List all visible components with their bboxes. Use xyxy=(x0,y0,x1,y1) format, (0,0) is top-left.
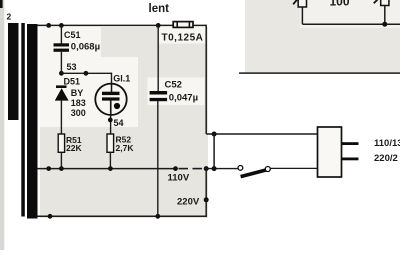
wire: to switch xyxy=(204,168,238,170)
junction dot at C52 branch xyxy=(156,23,161,28)
wire: switch to plug lower pin xyxy=(270,167,318,169)
inset: wire square2 down xyxy=(384,6,386,25)
wire: secondary top to fuse (node top rail) xyxy=(37,24,173,26)
upper-right inset white inner area xyxy=(300,0,400,28)
junction dot 110V tap xyxy=(173,166,178,171)
white patch around D51 and tube GL.1 xyxy=(40,57,138,127)
wire: diode to R51 xyxy=(60,100,62,134)
main schematic gray panel xyxy=(40,27,208,218)
inset: bottom wire xyxy=(302,23,400,25)
svg-text:Gl.1: Gl.1 xyxy=(113,74,130,84)
wire: switch common drop xyxy=(213,134,215,169)
220V rail xyxy=(37,215,207,217)
capacitor C52 xyxy=(150,91,168,101)
junction dot xyxy=(46,166,51,171)
inset: arrow tick 2 xyxy=(374,0,379,3)
transformer secondary winding bar xyxy=(27,24,38,219)
plug pin lower xyxy=(342,158,359,161)
wire: C52 branch from top rail xyxy=(157,25,159,91)
wire: C51 to node 53 xyxy=(60,52,62,74)
junction dot at C51 branch xyxy=(59,23,64,28)
junction dot R52 xyxy=(108,166,113,171)
junction dot switch common xyxy=(212,166,217,171)
resistor R51 xyxy=(58,134,64,152)
svg-text:300: 300 xyxy=(71,108,86,118)
page edge gray strip xyxy=(0,0,4,250)
white patch around C52 xyxy=(148,78,205,106)
svg-text:2: 2 xyxy=(7,12,12,22)
capacitor C51 xyxy=(54,43,70,52)
svg-text:110V: 110V xyxy=(168,173,190,184)
white patch around fuse label T0,125A xyxy=(158,27,206,44)
svg-text:100: 100 xyxy=(330,0,350,8)
junction dot on node53 wire xyxy=(84,71,89,76)
svg-text:lent: lent xyxy=(149,3,170,15)
svg-text:53: 53 xyxy=(67,62,77,72)
wire: node 53 to tube anode xyxy=(61,72,111,74)
svg-text:110/13: 110/13 xyxy=(374,138,400,149)
svg-text:54: 54 xyxy=(114,118,124,128)
inset: arrow tick 1 xyxy=(293,0,297,4)
switch S contact left xyxy=(238,166,243,171)
white patch around C51 xyxy=(40,27,101,57)
inset: connector square 2 xyxy=(381,0,389,6)
page edge black mark xyxy=(0,0,3,8)
svg-text:0,047µ: 0,047µ xyxy=(169,93,198,104)
transformer T primary winding bar xyxy=(8,23,19,120)
node 53 xyxy=(59,71,64,76)
svg-text:0,068µ: 0,068µ xyxy=(71,42,100,53)
svg-text:C52: C52 xyxy=(165,80,182,91)
diode D51 xyxy=(55,85,69,100)
svg-text:22K: 22K xyxy=(66,143,82,153)
junction dot C52 xyxy=(155,214,160,219)
node 54 xyxy=(108,118,113,123)
wire: to plug upper pin xyxy=(206,133,318,135)
svg-text:D51: D51 xyxy=(64,77,81,87)
svg-text:2,7K: 2,7K xyxy=(116,143,135,153)
upper-right inset bottom edge line xyxy=(239,72,400,74)
wire: 220V drop xyxy=(205,169,207,217)
inset: connector square 1 xyxy=(298,0,306,7)
wire: C51 branch from top rail xyxy=(60,25,62,43)
plug pin upper xyxy=(342,142,359,145)
fuse Si T0,125A xyxy=(173,22,193,28)
transformer core line xyxy=(21,23,25,217)
inset: junction dot xyxy=(382,22,387,27)
junction dot R51 xyxy=(59,166,64,171)
110V rail xyxy=(37,168,176,170)
svg-text:BY: BY xyxy=(71,88,84,98)
svg-text:T0,125A: T0,125A xyxy=(162,33,204,44)
junction dot on top rail xyxy=(46,23,51,28)
svg-text:220/2: 220/2 xyxy=(374,153,398,164)
wire: tube cathode down to node 54 xyxy=(110,100,112,134)
wire: R51 to 110V rail xyxy=(60,152,62,168)
junction dot at switch feed xyxy=(212,132,217,137)
svg-text:C51: C51 xyxy=(64,30,81,40)
switch contact right xyxy=(265,167,270,172)
tube GL.1 xyxy=(95,84,126,115)
wire: drop into tube top xyxy=(111,73,113,92)
wire: R52 to 110V rail xyxy=(109,152,111,168)
switch lever xyxy=(241,170,266,177)
wire: C52 down to 220V rail xyxy=(157,101,159,217)
wire: fuse to corner xyxy=(193,24,206,26)
220V tap dot xyxy=(204,197,209,202)
upper-right inset gray panel xyxy=(245,0,400,74)
inset: wire square1 down xyxy=(301,7,303,24)
mains plug body xyxy=(318,127,342,177)
svg-text:183: 183 xyxy=(71,98,86,108)
resistor R52 xyxy=(107,134,114,152)
dashed selector link xyxy=(179,168,203,170)
junction dot xyxy=(48,214,53,219)
svg-text:220V: 220V xyxy=(177,197,200,208)
junction dot 220V drop xyxy=(204,166,209,171)
wire: fuse output drop xyxy=(205,25,207,134)
